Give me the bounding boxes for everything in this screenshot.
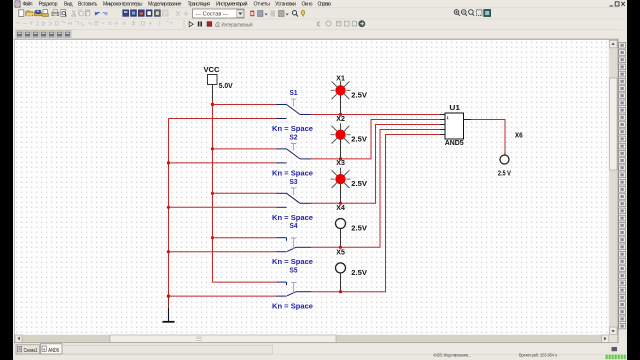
node VCC junction: [211, 103, 214, 106]
ground: [163, 296, 175, 322]
lamp X4 bottom pin: [340, 229, 342, 248]
switch S1 actuator: [291, 99, 296, 106]
wire U1 out to X6: [471, 120, 505, 153]
svg-text:S5: S5: [290, 266, 298, 275]
lamp X3 (lit): [331, 158, 367, 205]
svg-text:Справка: Справка: [318, 2, 332, 8]
lamp X1 (lit): [331, 74, 367, 117]
lamp X4 body (off): [336, 219, 346, 229]
svg-text:S4: S4: [290, 221, 299, 230]
printer: [53, 10, 58, 12]
switch S2 actuator: [291, 144, 296, 151]
wire S3 out: [311, 125, 440, 204]
svg-text:Схема1: Схема1: [24, 348, 38, 354]
svg-text:X6: X6: [515, 130, 523, 139]
wire gnd rail to S4 bottom throw: [169, 251, 277, 253]
lamp X2 body (lit): [336, 130, 346, 140]
node X3 junction: [339, 202, 342, 205]
wire gnd rail to S1 bottom throw: [169, 118, 277, 120]
node rail2 ground junction: [167, 294, 170, 297]
switch S5 body (throws, lever, common): [277, 282, 312, 296]
svg-text:Окно: Окно: [302, 2, 313, 8]
wire VCC rail to S3 top throw: [213, 192, 277, 194]
VCC pin: [212, 85, 214, 101]
node X2 junction: [339, 157, 342, 160]
lamp X3 top pin: [340, 168, 342, 175]
pin stubs: [440, 115, 471, 135]
redo: [102, 12, 107, 15]
lamp X2 top pin: [340, 123, 342, 130]
wire S4 out: [311, 130, 440, 248]
svg-text:5.0V: 5.0V: [219, 81, 233, 90]
svg-text:VCC: VCC: [204, 65, 221, 74]
switch S5: [169, 266, 314, 311]
svg-text:2.5V: 2.5V: [351, 224, 367, 233]
window controls: [610, 2, 625, 6]
switch S3 actuator: [291, 188, 296, 195]
wire ground rail vertical: [168, 119, 170, 297]
switch S4 body (throws, lever, common): [277, 238, 312, 252]
lamp X4 (off): [336, 203, 367, 249]
lamp X3 body (lit): [336, 174, 346, 184]
svg-text:Время раб: 203.854 s: Время раб: 203.854 s: [519, 352, 557, 358]
empty tab strip: [63, 345, 273, 354]
switch S2: [169, 132, 314, 177]
wire VCC rail to S2 top throw: [213, 148, 277, 150]
lamp X1 bottom pin: [340, 95, 342, 115]
lamp X2 bottom pin: [340, 139, 342, 159]
node rail2 S4: [167, 250, 170, 253]
node X5 junction: [339, 290, 342, 293]
print preview: [61, 10, 66, 17]
horizontal scrollbar: [15, 335, 609, 343]
lamp X1 rays: [332, 81, 350, 99]
lamp X3 rays: [332, 170, 350, 188]
wire VCC rail to S5 top throw: [213, 281, 277, 283]
node rail2 S3: [167, 206, 170, 209]
wire VCC rail to S4 top throw: [213, 237, 277, 239]
svg-text:S2: S2: [290, 132, 298, 141]
node X1 junction: [339, 113, 342, 116]
tiny status icon: [612, 347, 618, 351]
MDI doc icon in menu bar: [15, 1, 20, 7]
VCC source symbol: [208, 75, 218, 85]
svg-text:Моделирование: Моделирование: [148, 2, 182, 8]
lamp X1 side rays: [331, 89, 351, 91]
svg-text:X4: X4: [336, 203, 345, 212]
wire VCC rail vertical: [212, 100, 214, 282]
probe X6: [498, 130, 523, 177]
undo: [95, 12, 100, 15]
svg-text:Установки: Установки: [275, 2, 296, 8]
switch S1: [169, 88, 314, 133]
switch S4: [169, 221, 314, 266]
svg-text:2.5V: 2.5V: [351, 90, 367, 99]
svg-text:Файл: Файл: [23, 1, 33, 8]
lamp X1 body (lit): [336, 85, 346, 95]
zoom icon group (right side): [454, 10, 490, 17]
switch S5 actuator: [291, 282, 296, 293]
paste (gray): [85, 10, 90, 16]
wire VCC rail to S1 top throw: [213, 104, 277, 106]
lamp X5 (off): [336, 247, 367, 293]
svg-text:Инструментарий: Инструментарий: [216, 1, 248, 8]
row2 right icon group (analysis): [318, 21, 365, 27]
svg-text:Kn = Space: Kn = Space: [272, 302, 313, 311]
save: [34, 11, 41, 16]
copy (gray): [78, 10, 81, 14]
svg-text:Интерактивный: Интерактивный: [222, 22, 253, 29]
lamp X2 side rays: [331, 134, 351, 136]
lamp X3 bottom pin: [340, 184, 342, 204]
svg-text:2.5V: 2.5V: [351, 179, 367, 188]
wire S2 out: [311, 120, 440, 159]
wire S1 out: [311, 114, 440, 116]
svg-text:2.5 V: 2.5 V: [498, 169, 511, 178]
svg-text:Редактор: Редактор: [39, 2, 58, 8]
svg-text:AND5: AND5: [445, 138, 464, 147]
switch S4 actuator: [291, 238, 296, 249]
svg-text:U1: U1: [449, 103, 460, 112]
blue window icons: [123, 10, 161, 17]
svg-text:X2: X2: [336, 114, 345, 123]
op-amp U1 AND5: [440, 103, 471, 147]
svg-text:X5: X5: [336, 247, 345, 256]
svg-text:X1: X1: [336, 74, 345, 83]
page-folder: [43, 10, 48, 15]
node rail1 S2: [211, 147, 214, 150]
green activity bars: [606, 355, 626, 360]
lamp X2 (lit): [331, 114, 367, 161]
svg-text:AND5: AND5: [48, 348, 59, 354]
lamp X2 rays: [332, 126, 350, 144]
node X4 junction: [339, 246, 342, 249]
svg-text:S3: S3: [290, 177, 298, 186]
svg-text:S1: S1: [290, 88, 298, 97]
svg-text:AND5: Моделирование...: AND5: Моделирование...: [433, 352, 471, 358]
wire S5 out: [311, 135, 440, 292]
new: [19, 10, 24, 17]
open: [26, 11, 33, 16]
vertical scrollbar: [609, 40, 617, 335]
wire gnd rail to S3 bottom throw: [169, 206, 277, 208]
cut (gray): [72, 10, 75, 15]
lamp X3 side rays: [331, 178, 351, 180]
node rail1 S3: [211, 192, 214, 195]
svg-text:Трансляция: Трансляция: [188, 2, 211, 8]
combo box: [193, 9, 245, 18]
svg-text:Отчеты: Отчеты: [254, 2, 271, 8]
svg-text:Микроконтроллеры: Микроконтроллеры: [103, 2, 143, 8]
icons right of combo: [250, 10, 305, 16]
svg-text:Вид: Вид: [64, 2, 73, 8]
svg-text:X3: X3: [336, 158, 345, 167]
switch S1 body (throws, lever, common): [277, 105, 312, 119]
wire gnd rail to S5 bottom throw: [169, 295, 277, 297]
switch S3: [169, 177, 314, 222]
svg-text:Вставить: Вставить: [78, 2, 98, 8]
lamp X5 body (off): [336, 263, 346, 273]
node rail2 S2: [167, 161, 170, 164]
play / pause / stop: [189, 22, 193, 27]
node rail1 S4: [211, 236, 214, 239]
switch S3 body (throws, lever, common): [277, 193, 312, 207]
svg-text:--- Состав ---: --- Состав ---: [196, 11, 229, 17]
lamp X5 bottom pin: [340, 273, 342, 292]
lamp X1 top pin: [340, 81, 342, 86]
wire gnd rail to S2 bottom throw: [169, 162, 277, 164]
switch S2 body (throws, lever, common): [277, 149, 312, 163]
grid dots: [15, 40, 609, 335]
svg-text:2.5V: 2.5V: [351, 268, 367, 277]
svg-text:2.5V: 2.5V: [351, 135, 367, 144]
